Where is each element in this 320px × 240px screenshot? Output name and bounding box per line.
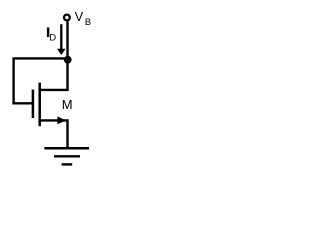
label VB: [75, 10, 91, 27]
wire: bus from node left and down to gate lead: [12, 58, 67, 103]
wire: VB terminal down through node to drain corner and left to channel bar: [40, 21, 69, 90]
terminal VB: [64, 15, 70, 21]
svg-text:B: B: [85, 16, 91, 27]
svg-text:D: D: [49, 31, 56, 42]
transistor M gate bar: [32, 90, 35, 118]
node: junction dot: [64, 56, 72, 64]
label M: [62, 97, 73, 112]
svg-text:M: M: [62, 97, 73, 112]
label ID: [47, 28, 57, 43]
current arrow ID: [57, 24, 66, 55]
transistor M source stub with wire down to ground: [40, 119, 68, 147]
transistor M source arrow: [57, 116, 65, 124]
ground: [44, 148, 89, 164]
transistor M channel bar: [38, 83, 41, 127]
svg-text:V: V: [75, 10, 84, 24]
